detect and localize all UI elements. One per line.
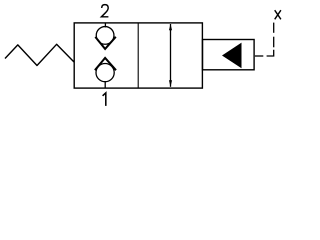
check valve ball bottom	[96, 64, 114, 82]
valve body	[74, 23, 202, 88]
pilot pressure triangle	[222, 43, 242, 69]
spring	[5, 44, 74, 65]
position divider	[137, 23, 139, 88]
port stub 1	[104, 81, 106, 88]
pilot line dashed	[255, 23, 274, 56]
pilot actuator box	[203, 40, 255, 70]
port label 1	[103, 93, 106, 106]
port stub 2	[104, 23, 106, 28]
check valve seat bottom	[95, 58, 116, 70]
check valve seat top	[95, 37, 116, 49]
port label 2	[101, 5, 108, 17]
check valve ball top	[96, 27, 114, 45]
pilot port label X	[275, 10, 281, 19]
flow arrow	[169, 24, 172, 87]
